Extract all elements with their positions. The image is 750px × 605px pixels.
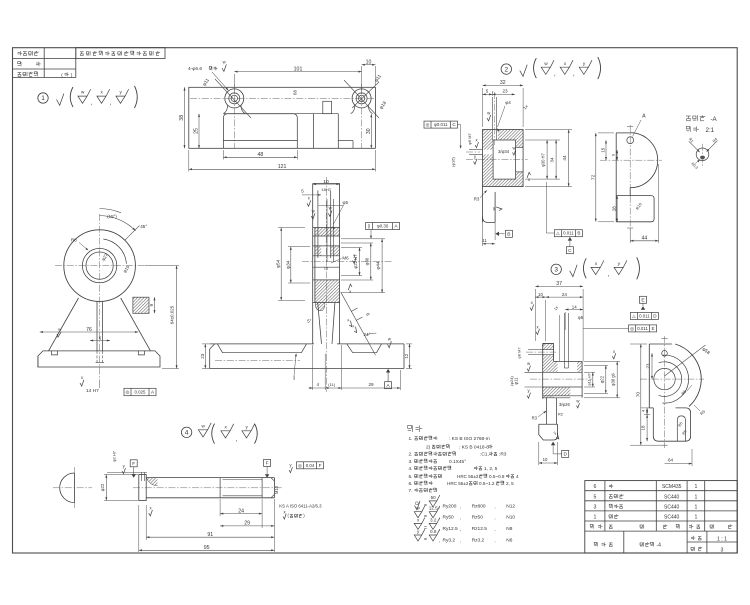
svg-text:48: 48: [258, 152, 264, 158]
svg-text:0.011: 0.011: [639, 313, 650, 318]
svg-text:101: 101: [294, 66, 303, 72]
svg-text:φ4: φ4: [505, 100, 511, 105]
svg-text:N10: N10: [506, 514, 515, 520]
svg-text:N12: N12: [506, 504, 515, 510]
svg-text:SCM435: SCM435: [662, 484, 682, 490]
svg-text:φ38 g6: φ38 g6: [611, 372, 616, 386]
svg-text:7.: 7.: [409, 488, 413, 494]
svg-text:,: ,: [573, 71, 575, 78]
svg-text:11: 11: [482, 238, 487, 243]
svg-text:15: 15: [601, 147, 606, 152]
svg-text:E: E: [641, 298, 644, 304]
svg-text:34: 34: [550, 157, 555, 163]
svg-text:,: ,: [91, 100, 93, 107]
svg-text:,: ,: [110, 100, 112, 107]
svg-text:30: 30: [366, 128, 372, 134]
svg-text:10: 10: [538, 292, 543, 297]
svg-text:5°: 5°: [307, 319, 311, 324]
svg-text:φ22: φ22: [599, 375, 604, 383]
svg-text:50: 50: [431, 495, 437, 500]
svg-text:φ6 M7: φ6 M7: [467, 132, 472, 144]
svg-text:(15°): (15°): [107, 214, 117, 219]
svg-text:φ11: φ11: [513, 377, 518, 385]
svg-text:38: 38: [179, 115, 185, 121]
svg-text:,: ,: [494, 504, 495, 509]
svg-text:5: 5: [593, 494, 596, 500]
svg-text:φ54: φ54: [276, 259, 282, 268]
svg-text:R3: R3: [532, 416, 538, 421]
svg-text:0.011: 0.011: [563, 231, 574, 236]
svg-text:12: 12: [404, 353, 409, 358]
svg-text:=: =: [424, 526, 427, 532]
svg-text:△: △: [632, 313, 636, 318]
svg-text:F: F: [132, 461, 135, 467]
svg-text:,: ,: [460, 527, 461, 532]
svg-text:0.025: 0.025: [135, 390, 147, 395]
svg-text:10: 10: [366, 60, 372, 66]
svg-text:Ry3.2: Ry3.2: [443, 538, 456, 544]
svg-text:23: 23: [200, 353, 205, 359]
svg-text:28: 28: [612, 206, 617, 211]
svg-text:,: ,: [460, 515, 461, 520]
svg-text:29: 29: [244, 521, 250, 527]
svg-text:1: 1: [694, 504, 697, 510]
svg-text:10: 10: [323, 179, 329, 185]
svg-text:φ5: φ5: [343, 200, 349, 205]
svg-text:HRC 55±2: HRC 55±2: [447, 481, 469, 486]
svg-text::R3: :R3: [499, 452, 507, 458]
svg-text:φ44: φ44: [376, 261, 381, 270]
svg-text:D: D: [563, 452, 567, 458]
svg-text:3.2: 3.2: [430, 517, 437, 522]
svg-text:φ6 M7: φ6 M7: [517, 347, 522, 358]
svg-text:15: 15: [324, 266, 329, 271]
svg-text:: KS B 0418-8: : KS B 0418-8: [459, 445, 489, 451]
svg-text:70: 70: [635, 392, 641, 398]
svg-text:-A: -A: [711, 116, 718, 123]
svg-text:0.1X45°: 0.1X45°: [449, 459, 466, 465]
svg-text:64±0.025: 64±0.025: [170, 305, 175, 324]
svg-text:0.011: 0.011: [637, 326, 648, 331]
svg-text:,: ,: [494, 527, 495, 532]
svg-text:1: 1: [694, 494, 697, 500]
svg-text:Rz12.5: Rz12.5: [472, 526, 488, 532]
svg-text:R2: R2: [558, 412, 564, 417]
svg-text:2.: 2.: [409, 452, 413, 458]
svg-text:φ30 H7: φ30 H7: [541, 152, 546, 166]
svg-text:(φ16): (φ16): [451, 156, 456, 166]
svg-text:(φ24): (φ24): [509, 375, 514, 385]
svg-text:B: B: [577, 231, 580, 236]
svg-text:14 H7: 14 H7: [86, 388, 99, 394]
svg-text:Ry50: Ry50: [443, 514, 455, 520]
svg-text:φ2 H7: φ2 H7: [111, 450, 116, 462]
svg-text:R8: R8: [71, 238, 77, 243]
svg-text:121: 121: [278, 164, 287, 170]
svg-text:72: 72: [590, 174, 596, 180]
svg-text:,: ,: [554, 71, 556, 78]
svg-text:2:1: 2:1: [706, 127, 715, 134]
svg-text:φ22: φ22: [100, 483, 105, 491]
svg-text:,: ,: [236, 436, 238, 443]
svg-text:12.5: 12.5: [429, 506, 438, 511]
svg-text:HRC 55±2: HRC 55±2: [457, 474, 479, 479]
svg-text:4: 4: [516, 474, 519, 479]
svg-text:1: 1: [41, 95, 45, 102]
svg-text:1: 1: [694, 515, 697, 521]
svg-text:Ry12.5: Ry12.5: [443, 526, 459, 532]
svg-text:φ0.30: φ0.30: [377, 224, 389, 229]
svg-text:76: 76: [86, 327, 92, 333]
svg-text:0.8: 0.8: [430, 529, 437, 534]
svg-text:B: B: [507, 232, 510, 238]
svg-text:E: E: [652, 326, 655, 331]
svg-text:23: 23: [502, 89, 508, 94]
svg-text:,: ,: [460, 538, 461, 543]
svg-text:Ry200: Ry200: [443, 504, 457, 510]
svg-text:-4: -4: [657, 543, 662, 549]
svg-text:4-φ6.6: 4-φ6.6: [188, 66, 202, 72]
svg-text:68: 68: [293, 90, 298, 95]
svg-text:32: 32: [500, 80, 506, 86]
svg-text:10: 10: [543, 457, 548, 462]
svg-text:45°: 45°: [140, 224, 147, 229]
svg-text:,: ,: [494, 538, 495, 543]
svg-text:△: △: [556, 231, 560, 236]
svg-text:φ30: φ30: [364, 257, 369, 265]
svg-text:,: ,: [439, 538, 440, 543]
svg-text:0.04: 0.04: [306, 463, 315, 468]
svg-text:3/φ26: 3/φ26: [559, 402, 571, 407]
svg-text:1: 1: [593, 515, 596, 521]
svg-text:0.5~1.2: 0.5~1.2: [479, 481, 495, 486]
svg-text:N6: N6: [506, 538, 512, 544]
svg-text:φ11 H7: φ11 H7: [586, 373, 591, 386]
svg-text:R3: R3: [474, 197, 480, 202]
svg-text:4: 4: [185, 430, 189, 437]
svg-text:23: 23: [646, 363, 651, 368]
svg-text:: KS B ISO 2768-m: : KS B ISO 2768-m: [449, 436, 490, 442]
svg-text:,: ,: [608, 271, 610, 278]
svg-text:44: 44: [562, 155, 567, 161]
svg-text:1, 2, 5: 1, 2, 5: [484, 466, 498, 472]
svg-text:M10: M10: [274, 485, 279, 494]
svg-text:6: 6: [593, 484, 596, 490]
svg-text:18: 18: [641, 425, 646, 430]
svg-text:44: 44: [642, 236, 648, 242]
svg-text:SC440: SC440: [664, 494, 680, 500]
svg-text:64: 64: [668, 458, 674, 463]
svg-text:φ0.011: φ0.011: [434, 122, 448, 127]
svg-text:6.: 6.: [409, 481, 413, 487]
svg-text:3: 3: [593, 504, 596, 510]
svg-text:37: 37: [556, 281, 562, 287]
svg-text:F: F: [266, 461, 269, 467]
svg-text:3: 3: [721, 547, 724, 553]
svg-text:(11): (11): [328, 382, 335, 387]
svg-text:0.5~0.8: 0.5~0.8: [489, 474, 505, 479]
svg-text:2): 2): [426, 445, 431, 451]
svg-text:25: 25: [194, 128, 200, 134]
svg-text:3/φ34: 3/φ34: [498, 149, 510, 154]
svg-text::C1,: :C1,: [480, 452, 489, 458]
svg-text:5.: 5.: [409, 474, 413, 480]
svg-text:φ34: φ34: [285, 260, 291, 269]
svg-text:2, 5: 2, 5: [506, 481, 514, 486]
svg-text:SC440: SC440: [664, 504, 680, 510]
svg-text:,: ,: [494, 515, 495, 520]
svg-text:N8: N8: [506, 526, 512, 532]
svg-text:95: 95: [204, 545, 210, 551]
svg-text:24: 24: [562, 292, 568, 297]
svg-text:24: 24: [238, 508, 244, 514]
svg-text:F: F: [319, 463, 322, 468]
svg-text:Rz3.2: Rz3.2: [472, 538, 485, 544]
svg-text:14: 14: [572, 304, 577, 309]
svg-text:Rz800: Rz800: [472, 504, 486, 510]
svg-text:1: 1: [694, 484, 697, 490]
svg-text:Rz50: Rz50: [472, 514, 484, 520]
svg-text:9: 9: [149, 303, 154, 306]
svg-text:2: 2: [504, 66, 508, 73]
svg-text:29: 29: [368, 382, 374, 387]
svg-text:SC440: SC440: [664, 515, 680, 521]
svg-text:A: A: [642, 114, 646, 120]
svg-text:M6: M6: [342, 256, 349, 261]
svg-text:3: 3: [554, 267, 558, 274]
svg-text:1 : 1: 1 : 1: [717, 537, 727, 543]
svg-text:φ5: φ5: [578, 315, 584, 320]
svg-text:91: 91: [207, 532, 213, 538]
svg-text:3.: 3.: [409, 459, 413, 465]
svg-text:C: C: [568, 248, 572, 254]
svg-text:4.: 4.: [409, 466, 413, 472]
svg-text:18H7: 18H7: [321, 187, 331, 192]
svg-text:,: ,: [460, 504, 461, 509]
svg-text:=: =: [424, 537, 427, 543]
svg-text:1.: 1.: [409, 436, 413, 442]
svg-text:KS A ISO 6411-A2/6.3: KS A ISO 6411-A2/6.3: [279, 504, 322, 509]
